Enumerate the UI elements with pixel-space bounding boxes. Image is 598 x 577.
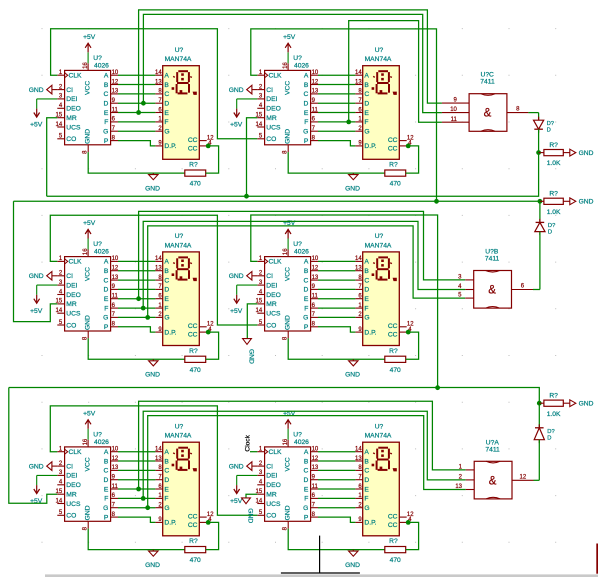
svg-text:D: D	[364, 477, 369, 484]
junction at CC pin (row2 left)	[206, 330, 211, 335]
svg-text:GND: GND	[284, 505, 291, 520]
reference U? / value MAN74A (row1 right)	[365, 47, 392, 63]
svg-text:14: 14	[355, 256, 362, 262]
svg-text:A: A	[304, 449, 309, 456]
svg-text:11: 11	[312, 484, 319, 490]
svg-text:C: C	[364, 91, 369, 98]
wire segment A row2 right	[318, 260, 355, 262]
svg-text:+5V: +5V	[83, 220, 96, 227]
pin 10 input of U?C	[442, 107, 469, 113]
junction tap F row3	[141, 496, 146, 501]
svg-text:D?: D?	[548, 223, 556, 229]
svg-text:CC: CC	[388, 323, 398, 330]
svg-text:D.P.: D.P.	[164, 143, 176, 150]
svg-text:E: E	[304, 296, 309, 303]
svg-text:D: D	[547, 127, 551, 133]
svg-text:U?: U?	[293, 55, 302, 62]
svg-text:P: P	[104, 138, 109, 145]
7-segment digit glyph (row1 right)	[372, 71, 397, 95]
svg-text:10: 10	[112, 256, 119, 262]
svg-text:G: G	[103, 129, 108, 136]
tap wire F row2 to gate input 4	[143, 221, 465, 308]
junction tap G row2	[145, 315, 150, 320]
svg-text:G: G	[303, 315, 308, 322]
pin 9 D of 4026 row1 right	[303, 98, 318, 108]
power +5V at VCC (row1 right)	[283, 34, 296, 63]
pin 7 D of display row3 right	[355, 475, 369, 485]
junction tap G row3	[145, 505, 150, 510]
power GND at CI (row3 left)	[29, 462, 58, 471]
pin 11 E of 4026 row3 right	[304, 484, 319, 494]
svg-text:13: 13	[312, 465, 319, 471]
pin 12 CC of display row3 right	[388, 512, 414, 521]
display U? MAN74A (row1 right) body	[363, 66, 400, 160]
ground symbol below display (row2 left)	[145, 359, 160, 378]
pin 8 P of 4026 row3 right	[304, 512, 318, 522]
svg-text:MAN74A: MAN74A	[165, 242, 192, 249]
pin 5 CO of 4026 row1 right	[257, 134, 276, 144]
pin 6 E of display row2 left	[155, 294, 169, 304]
ground symbol at MR row2 right	[243, 339, 255, 364]
wire P to D.P. row2 right	[318, 327, 355, 332]
pin 5 CO of 4026 row2 right	[257, 320, 276, 330]
svg-text:CC: CC	[388, 514, 398, 521]
svg-text:U?: U?	[93, 431, 102, 438]
svg-text:F: F	[304, 305, 308, 312]
pin 9 D of 4026 row3 right	[303, 475, 318, 485]
svg-text:10: 10	[312, 447, 319, 453]
svg-text:VCC: VCC	[84, 81, 91, 95]
reference U? / value MAN74A (row1 left)	[165, 47, 192, 63]
svg-text:U?: U?	[375, 47, 384, 54]
svg-text:14: 14	[256, 498, 263, 504]
svg-text:CO: CO	[266, 136, 276, 143]
junction node row1	[536, 150, 541, 155]
wire U?C output to diode	[538, 113, 540, 121]
svg-text:D.P.: D.P.	[164, 520, 176, 527]
svg-text:12: 12	[312, 266, 319, 272]
power +5V at DEI (row2 left)	[30, 285, 57, 315]
wire segment G row2 right	[318, 316, 355, 318]
svg-text:VCC: VCC	[284, 457, 291, 471]
power GND at CI (row1 right)	[229, 85, 258, 94]
svg-text:13: 13	[155, 79, 162, 85]
svg-text:CLK: CLK	[269, 73, 283, 80]
svg-text:+5V: +5V	[230, 498, 243, 505]
pin 9 D.P. of display row2 right	[355, 327, 376, 337]
svg-text:DEI: DEI	[66, 473, 77, 480]
power GND label (row3)	[570, 400, 594, 408]
svg-text:R?: R?	[549, 393, 558, 400]
pin 6 E of display row1 left	[155, 107, 169, 117]
pin 6 F of 4026 row3 left	[104, 493, 118, 503]
svg-text:&: &	[489, 475, 497, 487]
pin 1 F of display row2 right	[355, 303, 368, 313]
svg-text:CC: CC	[188, 514, 198, 521]
svg-text:D: D	[547, 436, 551, 442]
svg-text:4026: 4026	[94, 63, 109, 70]
svg-text:R?: R?	[549, 142, 558, 149]
pin 8 P of 4026 row2 right	[304, 322, 318, 332]
svg-text:P: P	[104, 324, 109, 331]
svg-text:C: C	[164, 91, 169, 98]
svg-text:GND: GND	[247, 349, 254, 364]
diode D? (row1 reset)	[534, 117, 555, 134]
svg-text:+5V: +5V	[83, 411, 96, 418]
pin 4 DEO of 4026 row3 left	[57, 480, 81, 490]
power +5V at VCC (row2 right)	[283, 220, 296, 249]
svg-text:CLK: CLK	[269, 259, 283, 266]
svg-text:7411: 7411	[480, 79, 495, 86]
svg-text:A: A	[364, 73, 369, 80]
reset line row3	[9, 388, 540, 404]
wire segment C row2 right	[318, 279, 355, 281]
pin 14 UCS of 4026 row1 left	[56, 122, 81, 132]
pin 12 CC of display row1 left	[188, 135, 214, 144]
pin 3 DEI of 4026 row1 right	[257, 94, 277, 104]
junction tap E row1	[136, 110, 141, 115]
wire CLK2-CO2 row2	[50, 215, 257, 325]
pin 7 D of display row1 right	[355, 98, 369, 108]
wire segment E row3 right	[318, 488, 355, 490]
wire segment B row2 right	[318, 270, 355, 272]
svg-text:B: B	[364, 268, 369, 275]
svg-text:CO: CO	[66, 322, 76, 329]
pin 13 B of display row1 right	[355, 79, 369, 89]
svg-text:UCS: UCS	[266, 501, 281, 508]
pin 15 MR of 4026 row3 left	[56, 489, 77, 499]
pin 11 E of 4026 row2 right	[304, 294, 319, 304]
svg-text:U?: U?	[293, 431, 302, 438]
pin 8 GND of 4026 row1 right	[283, 129, 292, 154]
pin 1 F of display row2 left	[155, 303, 168, 313]
svg-text:UCS: UCS	[66, 124, 81, 131]
wire P to D.P. row2 left	[118, 327, 155, 332]
7-segment digit glyph (row3 left)	[172, 448, 197, 472]
svg-text:F: F	[164, 496, 168, 503]
pin 7 G of 4026 row1 right	[303, 126, 318, 136]
svg-text:DEO: DEO	[66, 482, 81, 489]
svg-text:DEI: DEI	[266, 282, 277, 289]
pin 13 B of display row2 left	[155, 266, 169, 276]
pin 11 E of 4026 row1 right	[304, 107, 319, 117]
power +5V at VCC (row3 left)	[83, 411, 96, 440]
pin 6 F of 4026 row1 left	[104, 117, 118, 127]
svg-text:GND: GND	[345, 562, 360, 569]
wire segment D row1 right	[318, 102, 355, 104]
svg-text:DEI: DEI	[66, 282, 77, 289]
svg-text:A: A	[104, 449, 109, 456]
svg-text:GND: GND	[145, 185, 160, 192]
pin 8 C of display row1 right	[355, 89, 369, 99]
wire segment A row2 left	[118, 260, 155, 262]
reference U? / value MAN74A (row2 left)	[165, 233, 192, 249]
svg-text:VCC: VCC	[84, 457, 91, 471]
svg-text:VCC: VCC	[284, 81, 291, 95]
pin 4 DEO of 4026 row1 left	[57, 103, 81, 113]
display U? MAN74A (row1 left) body	[163, 66, 200, 160]
svg-text:D.P.: D.P.	[364, 520, 376, 527]
pin 8 P of 4026 row3 left	[104, 512, 118, 522]
pin 13 B of display row3 right	[355, 456, 369, 466]
junction tap E row3	[136, 487, 141, 492]
svg-text:13: 13	[112, 275, 119, 281]
svg-text:C: C	[303, 91, 308, 98]
power +5V at VCC (row3 right)	[283, 411, 296, 440]
svg-text:MR: MR	[66, 492, 77, 499]
pin 12 B of 4026 row1 left	[104, 79, 119, 89]
pin 14 UCS of 4026 row3 left	[56, 498, 81, 508]
pin 4 DEO of 4026 row1 right	[257, 103, 281, 113]
svg-text:14: 14	[256, 122, 263, 128]
pin 1 CLK of 4026 row1 right	[257, 70, 282, 80]
svg-text:A: A	[164, 449, 169, 456]
pin 2 CI of 4026 row3 left	[57, 461, 73, 471]
pin 1 CLK of 4026 row3 right	[257, 447, 282, 457]
pin 3 input of U?B	[458, 275, 474, 281]
svg-text:11: 11	[112, 484, 119, 490]
svg-text:CLK: CLK	[269, 449, 283, 456]
svg-text:CO: CO	[66, 136, 76, 143]
wire output U?B	[533, 289, 540, 291]
svg-text:E: E	[164, 486, 169, 493]
pin 8 C of display row3 left	[155, 465, 169, 475]
AND gate U?B 7411 body	[474, 249, 512, 309]
pin 12 B of 4026 row3 left	[104, 456, 119, 466]
wire P to D.P. row3 left	[118, 517, 155, 522]
tap wire F row3 to gate input 2	[143, 411, 466, 498]
wire GND pin to resistor row2 left	[88, 338, 185, 359]
7-segment digit glyph (row3 right)	[372, 448, 397, 472]
cursor crosshair	[281, 536, 360, 573]
pin 7 G of 4026 row3 left	[103, 503, 118, 513]
wire CLK row1 right	[251, 29, 437, 201]
svg-text:F: F	[104, 305, 108, 312]
reference U? / value MAN74A (row3 right)	[365, 423, 392, 439]
svg-text:10: 10	[112, 447, 119, 453]
wire GND pin to resistor row3 right	[288, 529, 385, 550]
svg-text:C: C	[303, 277, 308, 284]
svg-text:GND: GND	[29, 273, 44, 280]
svg-text:CC: CC	[388, 137, 398, 144]
svg-text:D: D	[164, 287, 169, 294]
pin 6 E of display row2 right	[355, 294, 369, 304]
svg-text:CLK: CLK	[69, 259, 83, 266]
resistor R? 1.0K (row2)	[540, 191, 570, 216]
pin 7 G of 4026 row2 left	[103, 312, 118, 322]
svg-text:U?: U?	[175, 47, 184, 54]
svg-text:12: 12	[312, 79, 319, 85]
counter U? 4026 (row2 left) body	[65, 257, 111, 331]
svg-text:7411: 7411	[485, 446, 500, 453]
junction at CC pin (row1 right)	[406, 144, 411, 149]
wire segment B row2 left	[118, 270, 155, 272]
svg-text:CI: CI	[266, 87, 273, 94]
svg-text:E: E	[104, 296, 109, 303]
svg-text:A: A	[364, 259, 369, 266]
svg-text:DEI: DEI	[266, 473, 277, 480]
pin 16 VCC of 4026 row3 right	[283, 438, 291, 471]
svg-text:C: C	[364, 277, 369, 284]
power +5V at DEI (row1 right)	[230, 99, 257, 129]
pin 4 DEO of 4026 row2 left	[57, 289, 81, 299]
pin 12 CC of display row3 left	[188, 512, 214, 521]
pin 8 P of 4026 row1 right	[304, 135, 318, 145]
pin 14 UCS of 4026 row2 right	[256, 308, 281, 318]
svg-text:UCS: UCS	[266, 124, 281, 131]
svg-text:B: B	[364, 82, 369, 89]
svg-text:U?: U?	[375, 233, 384, 240]
wire segment A row3 left	[118, 451, 155, 453]
svg-text:F: F	[364, 305, 368, 312]
resistor R? 470 (row1 left)	[185, 162, 206, 188]
wire segment E row2 left	[118, 298, 155, 300]
svg-text:4026: 4026	[294, 439, 309, 446]
svg-text:4026: 4026	[94, 439, 109, 446]
CLK input marker row2 left	[65, 259, 68, 264]
pin 12 CC of display row1 right	[388, 135, 414, 144]
junction at CC pin (row3 left)	[206, 520, 211, 525]
pin 1 CLK of 4026 row2 right	[257, 256, 282, 266]
svg-text:DEO: DEO	[66, 106, 81, 113]
ground symbol below display (row1 right)	[345, 173, 360, 192]
svg-text:D: D	[164, 101, 169, 108]
svg-text:CO: CO	[266, 322, 276, 329]
svg-text:F: F	[104, 496, 108, 503]
wire output U?C	[528, 112, 538, 114]
pin 6 F of 4026 row2 left	[104, 303, 118, 313]
reset line row1	[47, 153, 539, 197]
svg-text:12: 12	[112, 266, 119, 272]
pin 8 C of display row3 right	[355, 465, 369, 475]
pin 14 A of display row1 right	[355, 70, 369, 80]
wire P to D.P. row3 right	[318, 517, 355, 522]
svg-text:CI: CI	[66, 273, 73, 280]
resistor R? 470 (row2 right)	[385, 348, 406, 374]
svg-text:D.P.: D.P.	[164, 329, 176, 336]
pin 4 DEO of 4026 row2 right	[257, 289, 281, 299]
pin 2 G of display row2 right	[355, 312, 369, 322]
svg-text:DEO: DEO	[66, 292, 81, 299]
svg-text:CO: CO	[266, 513, 276, 520]
tap wire G row3 to gate input 13	[148, 416, 466, 508]
svg-text:DEI: DEI	[66, 96, 77, 103]
pin 5 input of U?B	[458, 293, 474, 299]
pin 10 A of 4026 row2 right	[304, 256, 319, 266]
wire MR row2 right to GND	[247, 304, 257, 339]
svg-text:1.0K: 1.0K	[547, 209, 561, 216]
grid dots	[42, 29, 557, 543]
svg-text:B: B	[164, 458, 169, 465]
pin 7 G of 4026 row1 left	[103, 126, 118, 136]
svg-text:F: F	[164, 305, 168, 312]
pin 9 D of 4026 row2 left	[103, 284, 118, 294]
svg-text:DEO: DEO	[266, 482, 281, 489]
svg-text:CO: CO	[66, 513, 76, 520]
pin 1 F of display row3 right	[355, 493, 368, 503]
wire segment A row1 left	[118, 74, 155, 76]
wire diode to U?A output	[538, 440, 540, 481]
svg-text:13: 13	[155, 266, 162, 272]
svg-text:G: G	[164, 129, 169, 136]
pin 9 D.P. of display row1 left	[155, 141, 176, 151]
counter U? 4026 (row3 left) body	[65, 447, 111, 521]
svg-text:GND: GND	[229, 87, 244, 94]
wire segment G row1 right	[318, 130, 355, 132]
svg-text:4026: 4026	[294, 63, 309, 70]
AND gate U?C 7411 body	[469, 72, 507, 132]
wire GND pin to resistor row1 left	[88, 152, 185, 173]
svg-text:B: B	[304, 268, 309, 275]
pin 9 D.P. of display row1 right	[355, 141, 376, 151]
pin 2 G of display row3 left	[155, 503, 169, 513]
svg-text:C: C	[103, 468, 108, 475]
svg-text:E: E	[304, 110, 309, 117]
wire segment E row2 right	[318, 298, 355, 300]
svg-text:11: 11	[112, 107, 119, 113]
pin 13 C of 4026 row3 right	[303, 465, 318, 475]
wire diode to U?B output	[539, 232, 541, 290]
pin 10 A of 4026 row3 left	[104, 447, 119, 457]
svg-text:A: A	[104, 73, 109, 80]
svg-text:11: 11	[112, 294, 119, 300]
wire segment D row2 left	[118, 288, 155, 290]
svg-text:CC: CC	[188, 145, 198, 152]
svg-text:MAN74A: MAN74A	[365, 242, 392, 249]
pin 5 CO of 4026 row2 left	[57, 320, 76, 330]
svg-text:P: P	[304, 514, 309, 521]
pin 12 output of U?A	[512, 474, 534, 480]
svg-text:12: 12	[312, 456, 319, 462]
svg-text:14: 14	[355, 70, 362, 76]
svg-text:13: 13	[312, 89, 319, 95]
pin 6 F of 4026 row1 right	[304, 117, 318, 127]
svg-text:A: A	[164, 73, 169, 80]
pin 8 C of display row1 left	[155, 89, 169, 99]
pin 10 A of 4026 row3 right	[304, 447, 319, 457]
pin 3 DEI of 4026 row1 left	[57, 94, 77, 104]
svg-text:&: &	[488, 285, 496, 297]
junction tap F row1 right	[346, 120, 351, 125]
svg-text:U?: U?	[293, 241, 302, 248]
power GND at CI (row1 left)	[29, 85, 58, 94]
reference U? / value 4026 (row2 left)	[93, 241, 109, 256]
power +5V at DEI (row3 left)	[30, 475, 57, 505]
svg-text:VCC: VCC	[84, 267, 91, 281]
reference U? / value 4026 (row3 left)	[93, 431, 109, 446]
svg-text:MR: MR	[66, 301, 77, 308]
svg-text:470: 470	[190, 181, 201, 188]
svg-text:C: C	[164, 277, 169, 284]
wire resistor to CC (row3 right)	[406, 522, 419, 549]
reference U? / value 4026 (row3 right)	[293, 431, 309, 446]
counter U? 4026 (row3 right) body	[265, 447, 311, 521]
wire P to D.P. row1 right	[318, 141, 355, 146]
wire MR row2 left	[14, 201, 58, 321]
pin 13 C of 4026 row1 right	[303, 89, 318, 99]
svg-text:13: 13	[355, 456, 362, 462]
svg-text:+5V: +5V	[230, 308, 243, 315]
pin 4 CC of display row3 left	[188, 517, 212, 529]
svg-text:11: 11	[312, 294, 319, 300]
svg-text:C: C	[103, 277, 108, 284]
ground symbol below display (row3 left)	[145, 550, 160, 569]
wire segment G row3 left	[118, 507, 155, 509]
CLK input marker row1 left	[65, 73, 68, 78]
pin 9 D of 4026 row3 left	[103, 475, 118, 485]
wire node row3 to diode	[538, 403, 540, 428]
wire resistor to CC (row1 right)	[406, 146, 419, 173]
